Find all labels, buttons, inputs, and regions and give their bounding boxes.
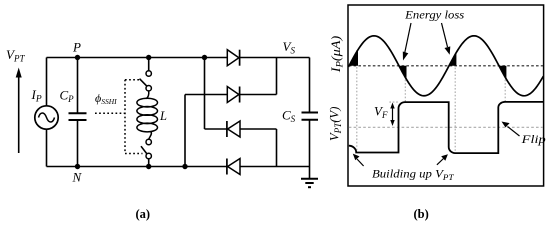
node: bridge bottom-left junction on N rail [182,164,187,169]
plot frame (b) [348,5,544,186]
ground [301,167,318,188]
energy loss shaded region 1 [349,50,358,66]
svg-text:Energy loss: Energy loss [404,7,464,21]
label CS [282,108,296,124]
label phi_SSHI (switch control) [95,91,117,106]
gray dotted flip instant verticals [357,50,505,153]
label L [159,109,167,123]
capacitor CS [302,58,319,167]
node: SSHI branch bottom junction [146,164,151,169]
VPT waveform [349,102,544,153]
svg-text:P: P [72,40,81,55]
node: bridge top-left junction on P rail [202,55,207,60]
svg-text:L: L [159,109,167,123]
energy loss shaded region 4 [499,66,506,79]
inductor L [137,91,158,139]
label VS [283,39,296,55]
label VF [374,104,388,120]
label IP [31,87,42,105]
label CP [60,88,75,104]
caption (a) [136,207,151,221]
label V_PT (left open-circuit voltage) [6,47,25,63]
diode D1 (P to VS) [227,50,239,66]
node P [75,55,80,60]
label Building up VPT [372,167,455,182]
energy loss shaded region 2 [399,66,407,80]
label Energy loss [404,7,464,21]
svg-text:VPT(V): VPT(V) [327,107,344,142]
arrow flip [502,122,520,137]
wire top rail (node P) [47,57,310,59]
svg-text:Building up VPT: Building up VPT [372,167,455,182]
VF double arrow [390,103,394,127]
node N [75,164,80,169]
current source IP (piezo current) [35,106,58,129]
switch S2 (bottom SSHI switch) [141,139,151,166]
arrow energy loss left [403,23,411,61]
IP sine waveform [348,36,543,96]
energy loss shaded region 3 [449,52,456,65]
svg-text:IP(μA): IP(μA) [328,36,345,74]
arrow building up right [437,154,448,165]
arrow energy loss right [442,23,451,55]
label P [72,40,81,55]
svg-text:VS: VS [283,39,296,55]
svg-text:(b): (b) [414,207,429,221]
node: SSHI branch top junction [146,55,151,60]
caption (b) [414,207,429,221]
axis label VPT(V) rotated [327,107,344,142]
svg-text:IP: IP [31,87,42,105]
diode D2 (N to VS) [227,87,239,103]
wire left branch [46,58,48,167]
capacitor CP [69,58,87,167]
svg-text:ϕSSHI: ϕSSHI [95,91,117,106]
label Flip [521,132,546,146]
diode D3 (ground to P) [227,121,240,137]
svg-text:Flip: Flip [521,132,546,146]
switch S1 (top SSHI switch) [140,58,152,91]
svg-text:CS: CS [282,108,296,124]
diode D4 (ground to N) [227,159,240,175]
wire bottom rail (node N) [47,166,310,168]
arrow building up left [353,154,364,166]
axis label IP(uA) rotated [328,36,345,74]
arrow for V_PT polarity [16,68,22,154]
label N [72,170,83,185]
dashed zero line for IP [349,65,543,67]
svg-text:VF: VF [374,104,388,120]
svg-text:N: N [72,170,83,185]
svg-text:VPT: VPT [6,47,25,63]
wire P to D3 cathode [205,58,227,130]
wire N to D2 anode [185,95,227,167]
VF level tick [389,101,398,103]
svg-text:(a): (a) [136,207,151,221]
wire D2 cathode up to VS rail [240,58,277,95]
svg-text:CP: CP [60,88,75,104]
gray dashed VS level line [349,126,543,128]
wire D3 anode down to ground rail [240,129,277,167]
dashed control line phi_SSHI [95,80,143,154]
